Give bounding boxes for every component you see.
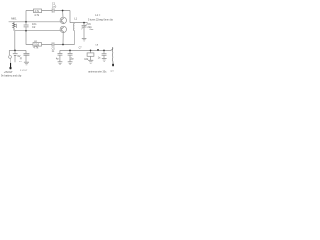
svg-text:B1: B1 (19, 61, 22, 63)
node dot C7 top (103, 50, 105, 52)
junction dots (14, 10, 105, 52)
microphone side bar (15, 24, 17, 28)
svg-text:C8: C8 (95, 44, 99, 46)
component X1 box (87, 53, 94, 56)
capacitor C7 plates (102, 54, 107, 56)
wire tank rail y=22.6 (70, 22, 88, 24)
svg-text:10p: 10p (70, 57, 75, 60)
node dot C6 top (69, 50, 71, 52)
capacitor C4 drop at x=26 (25, 50, 27, 62)
svg-text:C7: C7 (79, 47, 83, 49)
svg-text:4p: 4p (56, 57, 59, 60)
node dot X1 top (90, 50, 92, 52)
ground under X1 (88, 59, 93, 61)
node dot mark x=98 (97, 49, 99, 51)
node dot trimmer top (83, 22, 85, 24)
svg-text:9v battery and clip: 9v battery and clip (1, 75, 22, 78)
dark marks (10, 63, 114, 69)
svg-text:5 turns 22swg 6mm dia: 5 turns 22swg 6mm dia (88, 19, 113, 22)
antenna wavy wire (110, 47, 113, 63)
inductor L1 coil (73, 23, 74, 45)
battery plug tip (10, 67, 12, 69)
svg-text:MK1: MK1 (11, 16, 17, 20)
wire bottom path y=44.5 (26, 44, 75, 46)
svg-text:trim.: trim. (90, 28, 95, 31)
node dot base rail (25, 21, 27, 23)
svg-text:1n: 1n (52, 50, 55, 53)
trimmer VC1 arrow (81, 24, 87, 30)
capacitor C2 plates at x=26 (24, 25, 29, 27)
transistor Q2 internals (62, 27, 64, 32)
microphone MK1 zigzag element (13, 22, 16, 31)
ground under C7 (102, 58, 107, 60)
transistor Q2 circle (60, 26, 66, 32)
wire left supply rail y=50.4 (9, 49, 26, 51)
svg-text:ant: ant (110, 69, 113, 72)
text labels (tiny) (1, 1, 114, 77)
switch S1 circle (9, 56, 12, 59)
wire rail y=30.7 (15, 30, 60, 32)
capacitor C4 plates (24, 54, 30, 56)
node dot rail2 (25, 30, 27, 32)
wire collector column x=63 (62, 11, 65, 45)
ground under trimmer (82, 37, 87, 39)
node dot emitter bottom (62, 44, 64, 46)
wire mic lead down x=14.8 (14, 31, 16, 51)
ground under C5 (58, 61, 63, 63)
svg-text:4.7k: 4.7k (33, 46, 39, 50)
battery B1 plates (13, 53, 18, 55)
ground under C4 (24, 61, 29, 63)
node dot collector top (62, 10, 64, 12)
wire vertical x=26 node column (25, 11, 27, 45)
svg-text:4.7k: 4.7k (34, 13, 40, 17)
capacitor C5 lead (59, 50, 61, 61)
component X1 box lead (90, 50, 92, 60)
svg-text:9 VOLT: 9 VOLT (20, 70, 28, 72)
capacitor C3 series bottom (bars) (52, 42, 54, 46)
resistor R1 box top (34, 9, 42, 13)
trimmer VC1 lead (83, 23, 85, 39)
transistor Q1 internals (62, 18, 64, 23)
ground under C6 (68, 61, 73, 63)
svg-text:L1 =: L1 = (95, 13, 101, 17)
capacitor C5 plates (58, 54, 63, 56)
capacitor C1 series top (bars) (52, 8, 54, 12)
capacitor C6 lead (69, 50, 71, 61)
transistor Q1 circle (60, 17, 66, 23)
wire top path y=10.5 from node x=26 to corner x=70 (26, 10, 70, 12)
trimmer VC1 plates (82, 25, 87, 27)
antenna tip (112, 64, 114, 67)
svg-text:antenna wire 30c: antenna wire 30c (88, 71, 107, 74)
svg-text:C2: C2 (32, 25, 36, 29)
capacitor C6 plates (68, 54, 73, 56)
svg-text:1n: 1n (98, 58, 101, 60)
svg-text:1n0: 1n0 (52, 4, 57, 8)
wire switch to plug (9, 58, 11, 63)
label C4 value faint (20, 57, 22, 59)
wire right drop x=70 (69, 11, 71, 23)
resistor R2 box bottom (33, 43, 42, 47)
wire ground bus y=50.4 right (60, 49, 110, 51)
node dot battery top (14, 50, 16, 52)
wire switch drop x=9.3 (8, 50, 10, 55)
wire base rail y=21.8 (9, 21, 61, 23)
svg-text:L1: L1 (74, 16, 77, 20)
battery plug dark bar (10, 63, 11, 67)
capacitor C7 lead (103, 50, 105, 58)
battery B1 lead (14, 50, 16, 62)
